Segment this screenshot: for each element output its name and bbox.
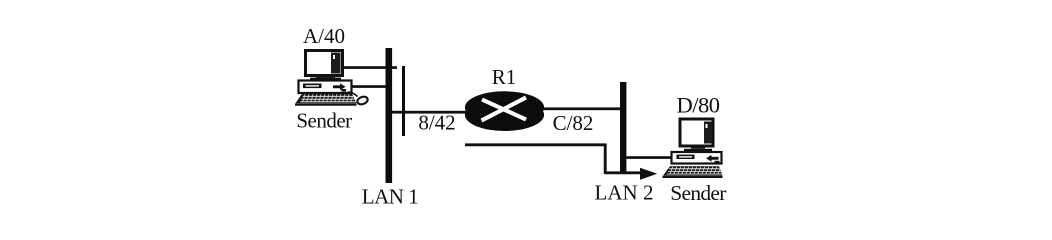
forwarding path wire with elbow — [465, 144, 643, 174]
svg-text:C/82: C/82 — [553, 111, 594, 135]
LAN 2 bus bar — [620, 82, 626, 174]
svg-text:R1: R1 — [492, 65, 517, 89]
wire host case to LAN 1 — [351, 85, 387, 88]
LAN 1 bus bar — [386, 48, 393, 183]
wire host monitor to LAN 1 — [344, 66, 397, 69]
host computer (right sender) — [663, 119, 723, 178]
svg-text:Sender: Sender — [296, 109, 352, 133]
stub bar on LAN 1 — [402, 66, 405, 136]
router R1 body — [465, 91, 544, 131]
wire LAN 1 to router, port 8/42 — [389, 111, 468, 114]
svg-text:A/40: A/40 — [303, 24, 345, 48]
mouse — [348, 92, 369, 105]
svg-text:LAN 1: LAN 1 — [362, 185, 418, 209]
host computer (left sender) — [295, 51, 357, 106]
wire LAN 2 to receiving host — [626, 156, 672, 159]
svg-text:D/80: D/80 — [677, 93, 720, 118]
svg-text:8/42: 8/42 — [418, 111, 455, 135]
arrowhead into LAN 2 receiver — [640, 168, 657, 180]
wire router to LAN 2, port C/82 — [543, 107, 621, 110]
svg-text:LAN 2: LAN 2 — [595, 181, 654, 205]
svg-text:Sender: Sender — [670, 181, 726, 205]
